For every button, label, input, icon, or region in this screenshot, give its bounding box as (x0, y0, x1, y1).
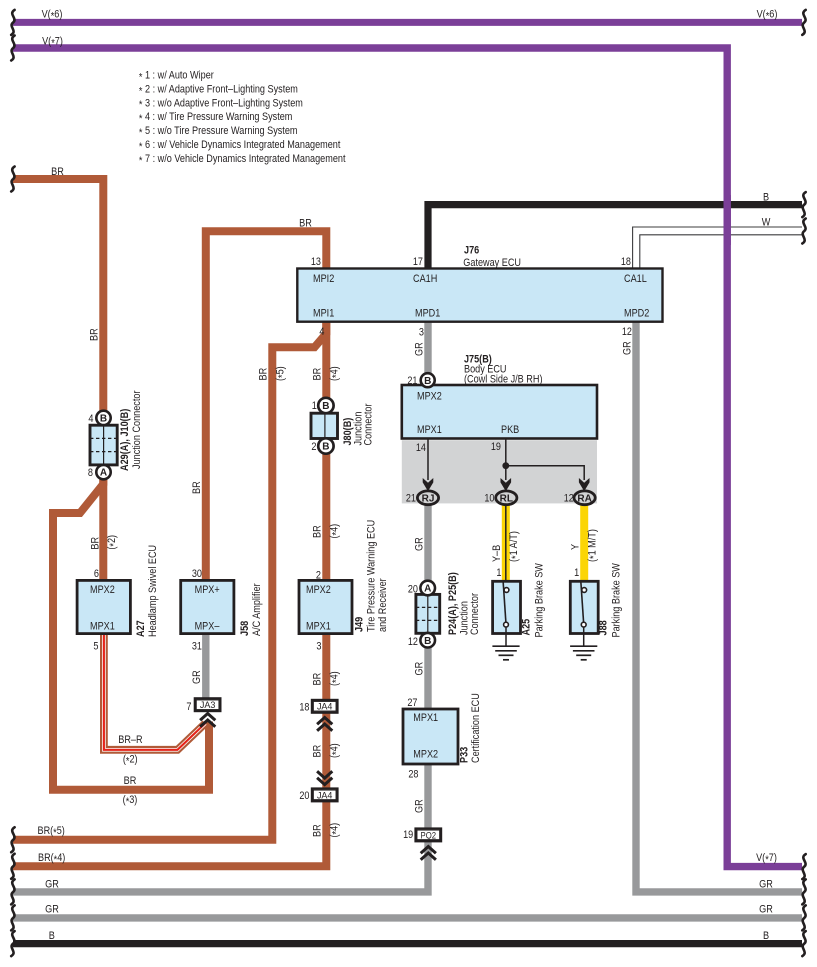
svg-text:JA4: JA4 (317, 790, 333, 801)
wire B black: gateway CA1H pin 17 up and right (428, 205, 802, 270)
wire W thin pair to gateway CA1L pin 18 (633, 227, 802, 270)
edge squiggles right (802, 10, 805, 35)
wire B black full-width bottom (13, 940, 802, 947)
junction connector J80(B) box (311, 413, 338, 438)
svg-text:12: 12 (408, 636, 418, 648)
svg-text:(*4): (*4) (328, 366, 342, 381)
svg-text:MPD1: MPD1 (415, 307, 440, 319)
svg-text:V(*7): V(*7) (756, 852, 777, 866)
svg-text:B: B (424, 376, 431, 387)
svg-text:20: 20 (299, 790, 309, 802)
svg-text:GR: GR (621, 341, 633, 355)
wire BR (*5): gateway MPI1 pin 4 jog, down, to bottom-left edge (13, 322, 326, 840)
svg-text:MPX1: MPX1 (413, 712, 438, 724)
svg-text:27: 27 (407, 697, 417, 709)
svg-text:3: 3 (419, 327, 424, 339)
svg-text:19: 19 (403, 829, 413, 841)
svg-text:4: 4 (319, 326, 324, 338)
svg-text:* 4 : w/ Tire Pressure Warning: * 4 : w/ Tire Pressure Warning System (139, 111, 293, 125)
svg-text:A: A (424, 584, 431, 595)
svg-text:2: 2 (316, 570, 321, 582)
pin circle B of body ECU (421, 373, 435, 387)
wire BR-R (*2): A27 MPX1 pin 5 loop to JA3 chevron (104, 634, 205, 750)
svg-text:MPD2: MPD2 (624, 307, 649, 319)
svg-text:GR: GR (45, 878, 59, 890)
svg-text:17: 17 (413, 256, 423, 268)
svg-text:3: 3 (316, 641, 321, 653)
ECU box J76 Gateway ECU (297, 269, 662, 322)
svg-text:RA: RA (577, 494, 591, 505)
svg-text:GR: GR (413, 662, 425, 676)
svg-text:MPX1: MPX1 (417, 424, 442, 436)
svg-text:12: 12 (564, 493, 574, 505)
wire BR (*2): A29 pin 8 down to A27 pin 6 (99, 478, 107, 580)
svg-text:(*1 A/T): (*1 A/T) (508, 531, 522, 562)
svg-text:J49: J49 (354, 617, 366, 632)
svg-text:MPI2: MPI2 (313, 273, 334, 285)
svg-text:JA3: JA3 (200, 700, 216, 711)
terminal oval RL (496, 491, 517, 505)
svg-text:MPX1: MPX1 (306, 621, 331, 633)
component name labels (119, 245, 623, 764)
wire Y: RA down to J88 pin 1 (580, 503, 588, 581)
pin circle B of P25 (420, 633, 435, 648)
svg-text:GR: GR (413, 342, 425, 356)
wire BR (*3) loop: A29 diagonal, left vertical, bottom run, up to JA3 chevron (53, 480, 209, 790)
svg-text:Parking Brake SW: Parking Brake SW (534, 563, 546, 638)
svg-text:* 2 : w/ Adaptive Front–Lighti: * 2 : w/ Adaptive Front–Lighting System (139, 83, 298, 97)
wire GR: RJ down through P24, P33, PQ2 to bottom-left edge (13, 503, 428, 892)
svg-text:21: 21 (406, 493, 416, 505)
chevron below JA3 (200, 714, 215, 727)
ground lead J88 (583, 627, 585, 646)
svg-text:6: 6 (94, 568, 99, 580)
junction connector A29(A),J10(B) box (90, 425, 117, 465)
svg-text:RL: RL (500, 494, 513, 505)
svg-text:10: 10 (484, 493, 494, 505)
svg-text:BR: BR (312, 525, 324, 538)
thin line PKB pin 19 to RL arrow (505, 439, 507, 481)
pin circle B of A29 (96, 411, 110, 425)
ground lead A25 (505, 627, 507, 646)
svg-text:Connector: Connector (363, 403, 375, 445)
svg-text:A: A (100, 468, 107, 479)
svg-text:* 3 : w/o Adaptive Front–Light: * 3 : w/o Adaptive Front–Lighting System (139, 97, 303, 111)
wire GR full-width bottom (13, 914, 802, 921)
svg-text:MPX2: MPX2 (306, 584, 331, 596)
svg-text:CA1L: CA1L (624, 273, 647, 285)
svg-text:2: 2 (311, 441, 316, 453)
svg-text:GR: GR (45, 904, 59, 916)
node: junction dot on PKB line (502, 462, 509, 469)
svg-text:5: 5 (93, 641, 98, 653)
svg-text:MPX–: MPX– (195, 621, 221, 633)
ECU box J58 A/C Amplifier (181, 580, 234, 633)
gray junction block region (Cowl Side J/B RH) (402, 440, 597, 503)
svg-text:19: 19 (491, 441, 501, 453)
svg-text:BR: BR (124, 775, 137, 787)
svg-text:J58: J58 (239, 621, 251, 636)
svg-text:Headlamp Swivel ECU: Headlamp Swivel ECU (147, 545, 159, 637)
svg-text:BR: BR (312, 673, 324, 686)
svg-text:8: 8 (88, 467, 93, 479)
svg-text:21: 21 (407, 375, 417, 387)
svg-text:30: 30 (192, 568, 202, 580)
svg-text:* 5 : w/o Tire Pressure Warnin: * 5 : w/o Tire Pressure Warning System (139, 125, 298, 139)
wire name labels, rotated (89, 328, 634, 837)
svg-text:PKB: PKB (501, 424, 519, 436)
connector box JA4 (18) (312, 700, 337, 713)
svg-text:MPX2: MPX2 (90, 584, 115, 596)
ECU box J49 Tire Pressure Warning ECU (299, 580, 352, 633)
connector box JA4 (20) (312, 789, 337, 802)
switch box A25 Parking Brake SW (493, 581, 521, 633)
svg-text:(Cowl Side J/B RH): (Cowl Side J/B RH) (464, 374, 543, 386)
svg-text:JA4: JA4 (317, 702, 333, 713)
svg-text:4: 4 (88, 413, 93, 425)
wire GR: gateway MPD1 pin 3 down to body ECU pin 21 (424, 322, 431, 386)
ECU internal labels (90, 273, 649, 761)
svg-text:P24(A), P25(B): P24(A), P25(B) (447, 572, 459, 635)
svg-text:* 1 : w/ Auto Wiper: * 1 : w/ Auto Wiper (139, 70, 214, 84)
svg-text:(*2): (*2) (106, 535, 120, 550)
svg-text:and Receiver: and Receiver (377, 578, 389, 632)
svg-text:1: 1 (574, 567, 579, 579)
svg-text:B: B (322, 401, 329, 412)
svg-text:P33: P33 (459, 747, 471, 763)
svg-text:BR: BR (299, 218, 312, 230)
svg-text:1: 1 (496, 567, 501, 579)
pin circle A of A29 (96, 465, 110, 479)
svg-text:31: 31 (192, 641, 202, 653)
svg-text:BR: BR (51, 166, 64, 178)
svg-text:Gateway ECU: Gateway ECU (463, 257, 521, 269)
svg-text:V(*6): V(*6) (757, 9, 778, 23)
svg-text:J76: J76 (464, 245, 479, 257)
thin branch line to RA arrow (506, 466, 584, 480)
switch contacts J88 (581, 583, 587, 627)
svg-text:BR: BR (191, 481, 203, 494)
svg-text:7: 7 (186, 701, 191, 713)
svg-text:J88: J88 (598, 620, 610, 635)
svg-text:14: 14 (416, 442, 426, 454)
ECU box A27 Headlamp Swivel ECU (77, 580, 130, 633)
ground symbol A25 (492, 646, 519, 660)
svg-text:GR: GR (759, 878, 773, 890)
chevron below PQ2 (421, 847, 436, 860)
svg-text:(*1 M/T): (*1 M/T) (586, 529, 600, 562)
svg-text:* 6 : w/ Vehicle Dynamics Inte: * 6 : w/ Vehicle Dynamics Integrated Man… (139, 139, 341, 153)
svg-text:MPI1: MPI1 (313, 307, 334, 319)
ground symbol J88 (570, 646, 597, 660)
wire V(*7) overdraw at crossing (724, 195, 731, 245)
edge squiggles left (11, 10, 14, 35)
junction connector P24(A),P25(B) box (416, 594, 440, 633)
svg-text:Parking Brake SW: Parking Brake SW (611, 563, 623, 638)
svg-text:GR: GR (759, 904, 773, 916)
wire BR: J58 MPX+ pin 30 up, across, down to gateway MPI2 pin 13 (206, 231, 326, 580)
svg-text:B: B (763, 192, 769, 204)
svg-text:V(*7): V(*7) (42, 36, 63, 50)
svg-text:MPX+: MPX+ (195, 584, 220, 596)
terminal oval RJ (417, 491, 438, 505)
svg-text:BR(*5): BR(*5) (38, 825, 65, 839)
svg-text:18: 18 (621, 256, 631, 268)
svg-text:28: 28 (408, 769, 418, 781)
svg-text:1: 1 (312, 400, 317, 412)
svg-text:BR: BR (89, 537, 101, 550)
switch box J88 Parking Brake SW (570, 581, 598, 633)
pin circle B1 of J80 (318, 398, 333, 413)
svg-text:W: W (762, 217, 771, 229)
svg-text:BR: BR (312, 745, 324, 758)
svg-text:MPX2: MPX2 (413, 749, 438, 761)
svg-text:(*4): (*4) (328, 823, 342, 838)
svg-text:(*4): (*4) (328, 671, 342, 686)
svg-text:BR: BR (258, 368, 270, 381)
wire Y-B: RL down to A25 pin 1 (502, 503, 510, 581)
svg-text:A29(A), J10(B): A29(A), J10(B) (119, 408, 131, 471)
svg-text:B: B (100, 414, 107, 425)
svg-text:RJ: RJ (422, 494, 435, 505)
wire GR: gateway MPD2 pin 12 down to bottom-right edge (636, 322, 802, 892)
svg-text:Junction Connector: Junction Connector (131, 390, 143, 469)
svg-text:V(*6): V(*6) (42, 9, 63, 23)
wire BR top-left to A29 junction connector pin 4 (13, 179, 103, 412)
connector box PQ2 (416, 829, 441, 842)
svg-text:B: B (322, 442, 329, 453)
svg-text:B: B (49, 930, 55, 942)
svg-text:BR: BR (312, 368, 324, 381)
svg-text:PQ2: PQ2 (421, 830, 437, 841)
svg-text:(*4): (*4) (328, 743, 342, 758)
svg-text:BR: BR (89, 328, 101, 341)
ECU box J75(B) Body ECU (402, 385, 597, 439)
connector box JA3 (195, 698, 220, 711)
switch contacts A25 (503, 583, 509, 627)
op: thin line MPX1 pin 14 to RJ arrow (427, 439, 429, 481)
chevron below JA4 (18) (317, 718, 332, 731)
svg-text:MPX1: MPX1 (90, 621, 115, 633)
terminal oval RA (574, 491, 595, 505)
svg-text:(*4): (*4) (328, 524, 342, 539)
svg-text:BR: BR (312, 824, 324, 837)
svg-text:A27: A27 (135, 620, 147, 637)
svg-text:Connector: Connector (469, 593, 481, 635)
svg-text:CA1H: CA1H (413, 273, 437, 285)
svg-text:12: 12 (622, 326, 632, 338)
wire BR (*4): gateway MPI1 pin 4 down through J80, J49, JA4 to bottom-left edge (13, 322, 326, 867)
svg-text:GR: GR (191, 670, 203, 684)
chevron above JA4 (20) (317, 771, 332, 784)
svg-text:BR(*4): BR(*4) (38, 852, 65, 866)
svg-text:13: 13 (311, 256, 321, 268)
wire V(*6) purple top (13, 19, 802, 26)
svg-text:MPX2: MPX2 (417, 391, 442, 403)
svg-text:GR: GR (413, 537, 425, 551)
svg-text:B: B (763, 930, 769, 942)
svg-text:(*3): (*3) (123, 794, 138, 808)
ECU box P33 Certification ECU (403, 709, 458, 764)
svg-text:A/C Amplifier: A/C Amplifier (251, 583, 263, 636)
svg-text:(*5): (*5) (274, 366, 288, 381)
svg-text:BR–R: BR–R (118, 734, 142, 746)
svg-text:B: B (424, 636, 431, 647)
svg-text:A25: A25 (521, 619, 533, 636)
svg-text:Y–B: Y–B (491, 545, 503, 562)
wire GR: J58 MPX- pin 31 down to JA3 (202, 634, 209, 699)
svg-text:Tire Pressure Warning ECU: Tire Pressure Warning ECU (366, 520, 378, 632)
pin circle A of P24 (420, 581, 435, 596)
pin circle B2 of J80 (318, 438, 333, 453)
svg-text:GR: GR (413, 799, 425, 813)
svg-text:(*2): (*2) (123, 754, 138, 768)
svg-text:20: 20 (408, 584, 418, 596)
svg-text:18: 18 (299, 702, 309, 714)
svg-text:* 7 : w/o Vehicle Dynamics Int: * 7 : w/o Vehicle Dynamics Integrated Ma… (139, 153, 346, 167)
svg-text:Y: Y (570, 543, 582, 550)
legend note (139, 70, 346, 167)
svg-text:Certification ECU: Certification ECU (470, 693, 482, 763)
